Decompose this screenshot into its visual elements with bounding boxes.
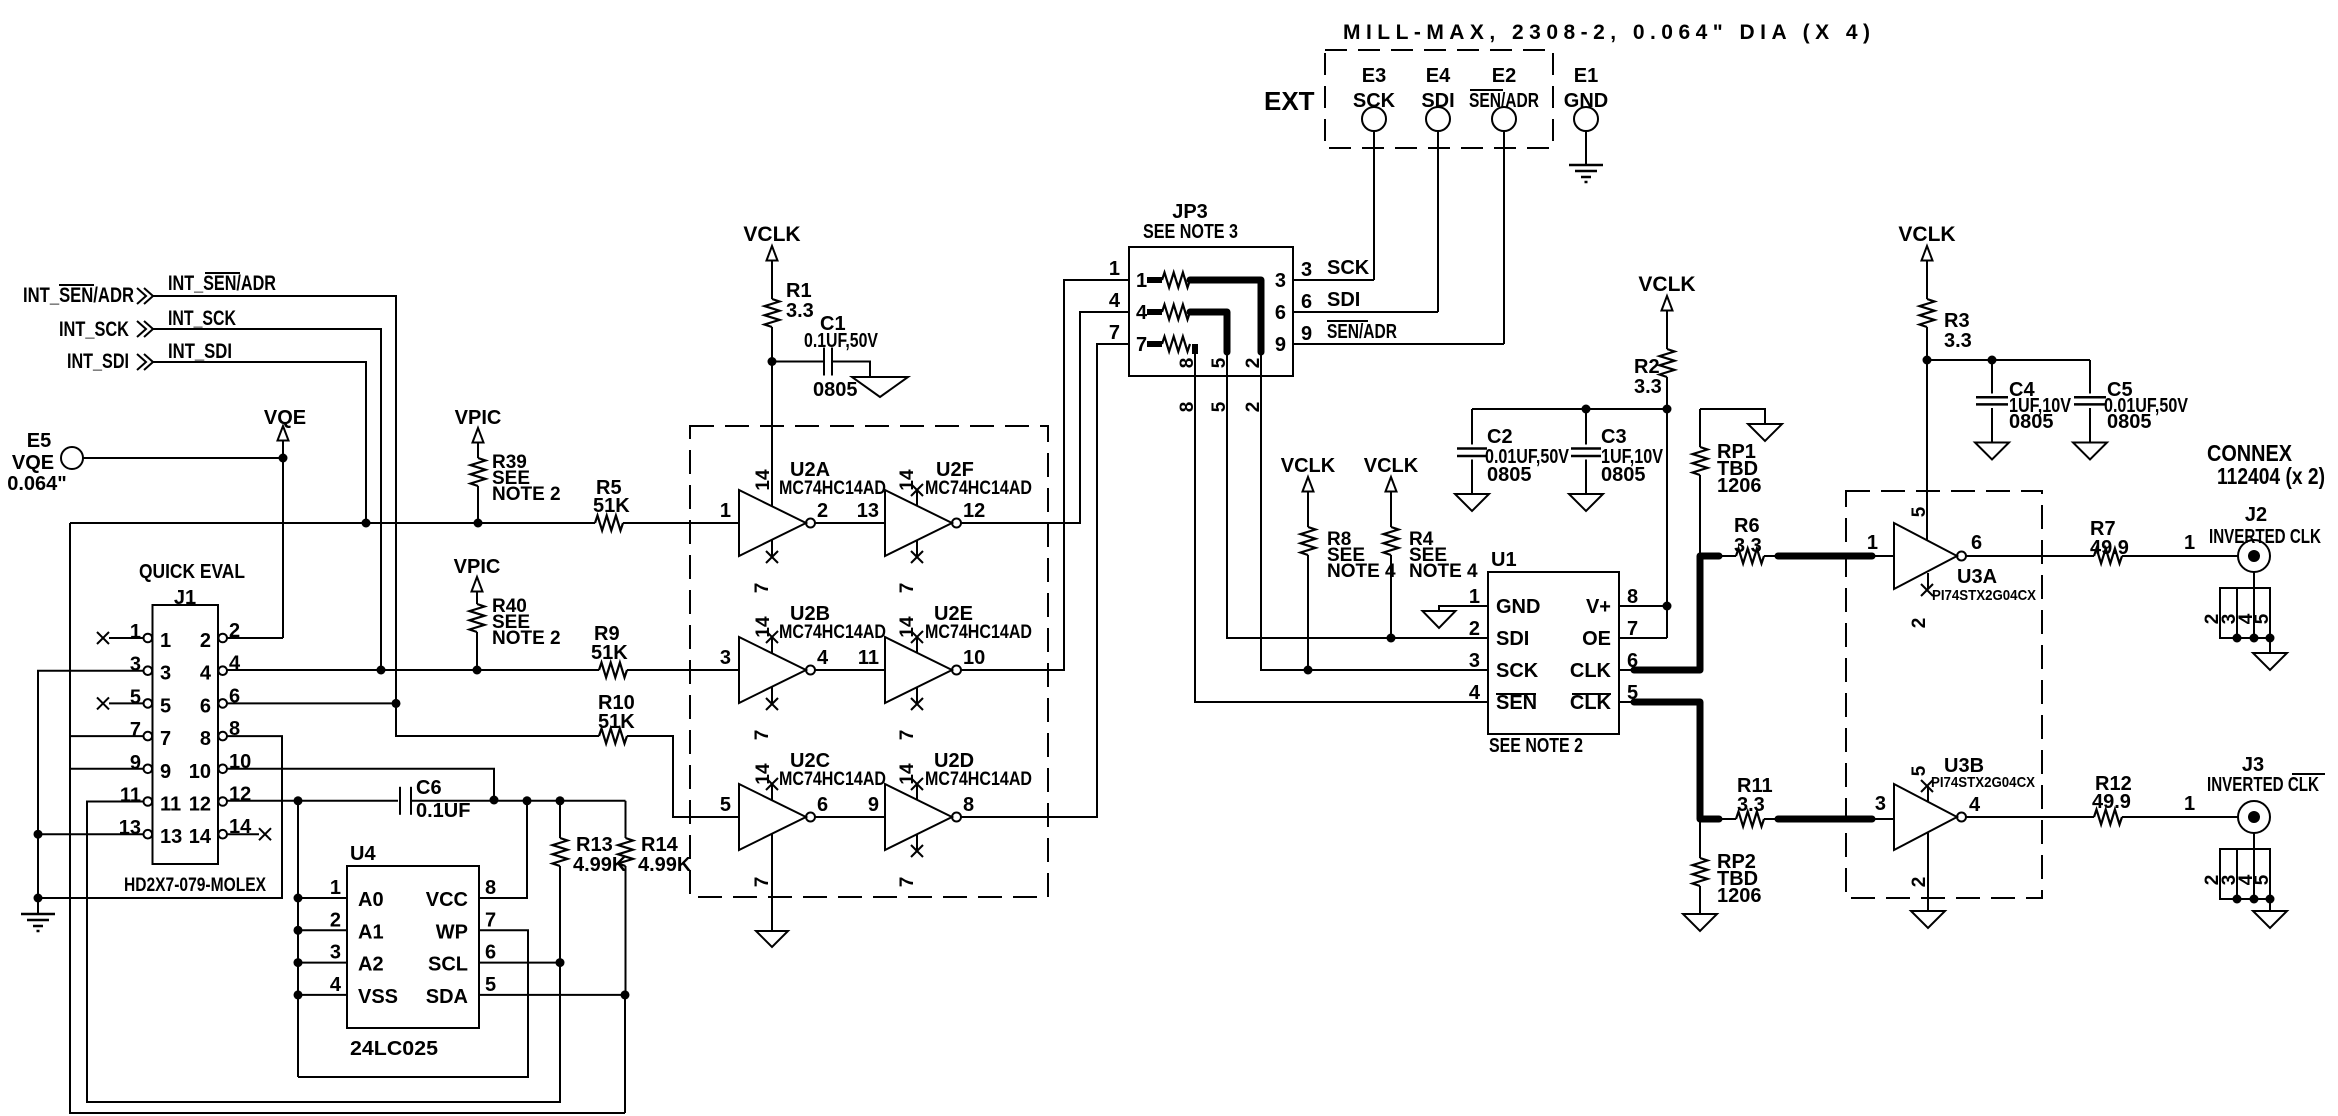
svg-text:1: 1 — [2184, 532, 2195, 554]
svg-text:0.064": 0.064" — [7, 473, 67, 495]
svg-text:OE: OE — [1582, 628, 1611, 650]
svg-text:E1: E1 — [1574, 65, 1598, 87]
svg-text:J3: J3 — [2242, 754, 2264, 776]
svg-text:2: 2 — [330, 909, 341, 931]
wire U4 SCL to R13 — [479, 958, 565, 967]
svg-text:14: 14 — [753, 616, 774, 638]
JP3 inside pin labels 8 5 2 — [1177, 357, 1264, 368]
svg-text:E5: E5 — [27, 430, 51, 452]
resistor R14 4.99K — [618, 834, 692, 1113]
power VCLK arrow (R4) — [1364, 455, 1419, 527]
svg-text:2: 2 — [1243, 358, 1264, 369]
svg-text:INT_SCK: INT_SCK — [59, 318, 129, 341]
svg-text:VCLK: VCLK — [1281, 455, 1336, 477]
svg-text:INT_SEN/ADR: INT_SEN/ADR — [168, 272, 276, 295]
svg-text:VQE: VQE — [12, 452, 54, 474]
wire U3B out to R12 — [1966, 816, 2094, 818]
svg-text:7: 7 — [752, 730, 773, 741]
ground arrow C1 — [852, 377, 908, 397]
inverter U2E MC74HC14AD — [885, 603, 1032, 740]
wire INT_SEN/ADR net label — [168, 272, 276, 295]
svg-text:1: 1 — [1469, 586, 1480, 608]
svg-text:51K: 51K — [593, 495, 630, 517]
wire INT_SEN/ADR to J1.6 and R10 — [153, 296, 599, 736]
inverter U2A MC74HC14AD — [720, 459, 886, 593]
wire R3 rail to C4 C5 — [1923, 356, 2091, 541]
svg-text:SDA: SDA — [426, 986, 468, 1008]
svg-text:VCLK: VCLK — [1364, 455, 1419, 477]
svg-text:14: 14 — [189, 826, 212, 848]
svg-text:VCLK: VCLK — [1898, 223, 1955, 246]
svg-text:V+: V+ — [1586, 596, 1611, 618]
svg-text:VCLK: VCLK — [743, 223, 800, 246]
svg-text:U3A: U3A — [1957, 566, 1997, 588]
svg-text:9: 9 — [868, 794, 879, 816]
wire J1 pin7/pin9 vertical (SDI/SDA net) — [70, 523, 625, 1113]
wire JP3 pin5 to U1 SDI — [1227, 376, 1488, 643]
capacitor C5 0.01UF,50V — [2074, 360, 2189, 443]
ground arrow J3 — [2253, 911, 2287, 928]
svg-text:1: 1 — [2184, 793, 2195, 815]
svg-text:3: 3 — [720, 647, 731, 669]
wire VCLK rail C2 C3 — [1472, 405, 1672, 639]
wire INT_SCK net label — [168, 307, 236, 330]
svg-text:3: 3 — [330, 942, 341, 964]
svg-text:10: 10 — [963, 647, 985, 669]
connector J2 INVERTED CLK — [2209, 504, 2321, 572]
svg-text:6: 6 — [1301, 291, 1312, 313]
dashed box U2 inverters — [690, 426, 1048, 897]
svg-text:7: 7 — [1136, 334, 1147, 356]
JP3 left pin numbers — [1109, 258, 1121, 344]
power VCLK arrow (R3) — [1898, 223, 1955, 299]
svg-text:2: 2 — [1469, 618, 1480, 640]
svg-text:INT_SCK: INT_SCK — [168, 307, 236, 330]
svg-text:6: 6 — [817, 794, 828, 816]
svg-text:4.99K: 4.99K — [638, 854, 692, 876]
svg-text:12: 12 — [963, 500, 985, 522]
svg-text:4: 4 — [330, 974, 342, 996]
svg-text:A1: A1 — [358, 921, 384, 943]
svg-text:7: 7 — [897, 877, 918, 888]
wire U2A out to U2F in — [815, 500, 885, 523]
svg-text:R6: R6 — [1734, 515, 1760, 537]
svg-text:14: 14 — [897, 469, 918, 491]
ground arrow U3B — [1911, 911, 1945, 928]
svg-text:SDI: SDI — [1327, 289, 1360, 311]
svg-text:13: 13 — [119, 817, 141, 839]
svg-text:INT_SEN/ADR: INT_SEN/ADR — [23, 284, 134, 307]
wire U4 WP loop — [298, 930, 528, 1077]
svg-text:5: 5 — [485, 974, 496, 996]
resistor RP2 TBD — [1693, 822, 1762, 914]
svg-text:9: 9 — [1275, 334, 1286, 356]
svg-text:R2: R2 — [1634, 356, 1660, 378]
wire J1 pin5 no-connect — [97, 697, 144, 709]
svg-text:5: 5 — [1909, 506, 1930, 517]
svg-text:SEN/ADR: SEN/ADR — [1327, 321, 1397, 343]
ground arrow RP2 — [1683, 914, 1717, 931]
svg-text:8: 8 — [963, 794, 974, 816]
svg-text:J1: J1 — [174, 587, 196, 609]
svg-text:INT_SDI: INT_SDI — [67, 350, 129, 373]
JP3 below pin labels 8 5 2 — [1177, 401, 1264, 412]
power VPIC arrow (R40) — [454, 556, 501, 604]
svg-text:3.3: 3.3 — [1737, 794, 1765, 816]
svg-text:CLK: CLK — [1570, 660, 1612, 682]
svg-text:GND: GND — [1564, 90, 1608, 112]
svg-text:4: 4 — [1969, 794, 1981, 816]
wire J3 shield pins — [2202, 833, 2275, 911]
svg-text:SCK: SCK — [1327, 257, 1370, 279]
svg-text:PI74STX2G04CX: PI74STX2G04CX — [1931, 774, 2035, 791]
svg-text:4: 4 — [229, 653, 241, 675]
svg-text:1206: 1206 — [1717, 885, 1762, 907]
chip U1 clock driver — [1469, 549, 1638, 757]
svg-text:JP3: JP3 — [1172, 201, 1208, 223]
ground arrow C3 — [1569, 494, 1603, 511]
svg-text:5: 5 — [130, 686, 141, 708]
svg-text:SCK: SCK — [1353, 90, 1396, 112]
svg-text:SEE NOTE 2: SEE NOTE 2 — [1489, 735, 1583, 757]
node E4 SDI pad — [1421, 65, 1454, 312]
svg-text:C2: C2 — [1487, 426, 1513, 448]
wire U4 VCC up — [479, 801, 527, 898]
capacitor C1 0.1UF,50V — [772, 313, 879, 401]
svg-text:12: 12 — [189, 794, 211, 816]
wire J1 pin11 to SCL loop — [87, 802, 560, 1103]
wire JP3 pin2 to U1 SCK — [1261, 376, 1488, 675]
svg-text:C3: C3 — [1601, 426, 1627, 448]
svg-text:SDI: SDI — [1496, 628, 1529, 650]
inverter U2F MC74HC14AD — [885, 459, 1032, 593]
wire R1 to U2A pin14 — [768, 327, 777, 506]
inverter U2B MC74HC14AD — [720, 603, 886, 740]
resistor R9 51K — [591, 623, 739, 678]
svg-text:3: 3 — [1275, 270, 1286, 292]
svg-text:INT_SDI: INT_SDI — [168, 340, 232, 363]
svg-text:11: 11 — [120, 785, 141, 807]
svg-text:10: 10 — [189, 761, 211, 783]
node INT_SDI input port — [67, 350, 153, 373]
JP3 row1 jumper resistor — [1136, 270, 1261, 376]
svg-text:MC74HC14AD: MC74HC14AD — [779, 622, 886, 643]
wire U3A out to R7 — [1966, 555, 2094, 557]
svg-text:13: 13 — [857, 500, 879, 522]
svg-text:4: 4 — [817, 647, 829, 669]
svg-text:A0: A0 — [358, 889, 384, 911]
wire SCK label — [1327, 257, 1370, 279]
svg-text:3: 3 — [160, 663, 171, 685]
resistor R1 3.3 — [765, 280, 814, 327]
wire R12 to J3 — [2122, 793, 2238, 817]
ground symbol below J1 — [21, 898, 55, 931]
ground arrow RP1 — [1748, 424, 1782, 441]
wire J2 shield pins — [2202, 572, 2275, 653]
svg-text:6: 6 — [485, 942, 496, 964]
wire J1 pin12 to C6 — [227, 796, 398, 805]
svg-text:14: 14 — [753, 763, 774, 785]
resistor R3 3.3 — [1920, 299, 1972, 360]
svg-text:7: 7 — [1627, 618, 1638, 640]
svg-text:7: 7 — [1109, 322, 1120, 344]
svg-text:VCLK: VCLK — [1638, 273, 1695, 296]
chip U4 24LC025 — [330, 843, 496, 1060]
JP3 row4 jumper resistor — [1136, 302, 1227, 376]
wire R7 to J2 — [2122, 532, 2238, 556]
svg-text:5: 5 — [1209, 357, 1230, 368]
svg-text:1: 1 — [1109, 258, 1120, 280]
svg-text:1206: 1206 — [1717, 475, 1762, 497]
wire R5 input row — [70, 519, 595, 528]
svg-text:51K: 51K — [591, 642, 628, 664]
svg-text:9: 9 — [160, 761, 171, 783]
capacitor C2 0.01UF,50V — [1457, 409, 1570, 494]
svg-text:3.3: 3.3 — [786, 300, 814, 322]
wire U1 CLKbar thick to R11 — [1619, 702, 1722, 819]
wire SDI label — [1327, 289, 1360, 311]
inverter U2C MC74HC14AD — [720, 750, 886, 887]
connector J1 QUICK EVAL header — [119, 561, 252, 864]
power VQE arrow — [264, 407, 306, 458]
resistor R11 3.3 — [1722, 775, 1773, 827]
resistor R10 51K — [598, 692, 739, 817]
node INT_SEN/ADR input port — [23, 284, 153, 307]
connector J3 INVERTED CLKbar — [2207, 754, 2325, 833]
svg-text:5: 5 — [1909, 765, 1930, 776]
node E3 SCK pad — [1353, 65, 1396, 280]
resistor R4 — [1384, 527, 1479, 638]
wire E5 to VQE junction and J1 pin2 — [83, 454, 288, 639]
resistor R6 3.3 — [1722, 515, 1764, 564]
svg-text:VSS: VSS — [358, 986, 398, 1008]
svg-text:7: 7 — [752, 583, 773, 594]
svg-text:MC74HC14AD: MC74HC14AD — [779, 478, 886, 499]
svg-text:0805: 0805 — [813, 379, 858, 401]
wire INT_SCK to J1.4 row — [153, 329, 386, 675]
svg-text:12: 12 — [229, 784, 251, 806]
wire J1 pin14 no-connect — [227, 828, 271, 840]
ground arrow U2C — [756, 931, 788, 947]
inverter U2D MC74HC14AD — [885, 750, 1032, 887]
wire SEN/ADR label — [1327, 321, 1397, 343]
svg-text:7: 7 — [897, 583, 918, 594]
svg-text:A2: A2 — [358, 954, 384, 976]
wire U2B out to U2E in — [815, 647, 885, 670]
svg-text:6: 6 — [1971, 532, 1982, 554]
svg-text:R13: R13 — [576, 834, 613, 856]
svg-text:112404 (x 2): 112404 (x 2) — [2217, 463, 2325, 489]
resistor R12 49.9 — [2092, 773, 2132, 825]
svg-text:3.3: 3.3 — [1734, 535, 1762, 557]
wire U2D out to JP3 pin7 — [961, 344, 1129, 817]
svg-text:7: 7 — [752, 877, 773, 888]
ground arrow J2 — [2253, 653, 2287, 670]
svg-text:1: 1 — [130, 621, 141, 643]
resistor R7 49.9 — [2090, 518, 2129, 564]
wire U2C out to U2D in — [815, 794, 885, 817]
ground arrow C5 — [2073, 443, 2107, 460]
svg-text:0805: 0805 — [1601, 464, 1646, 486]
node INT_SCK input port — [59, 318, 153, 341]
svg-text:14: 14 — [753, 469, 774, 491]
svg-text:8: 8 — [200, 728, 211, 750]
svg-text:SCK: SCK — [1496, 660, 1539, 682]
svg-text:49.9: 49.9 — [2092, 791, 2131, 813]
svg-text:9: 9 — [1301, 323, 1312, 345]
inverter U3B PI74STX2G04CX — [1875, 755, 2035, 887]
wire U4 left pins common — [294, 801, 348, 1077]
svg-text:U4: U4 — [350, 843, 376, 865]
wire R11 thick to U3B — [1764, 816, 1894, 823]
resistor R13 4.99K — [553, 801, 627, 963]
power VCLK arrow (R2) — [1638, 273, 1695, 349]
svg-text:4: 4 — [1136, 302, 1148, 324]
svg-text:1: 1 — [160, 630, 171, 652]
svg-text:8: 8 — [1627, 586, 1638, 608]
node E1 GND pad — [1564, 65, 1608, 131]
svg-text:WP: WP — [436, 921, 468, 943]
JP3 right pin wires — [1275, 259, 1504, 356]
svg-text:NOTE 4: NOTE 4 — [1327, 561, 1396, 582]
svg-text:3: 3 — [130, 654, 141, 676]
ground arrow U1 GND pin — [1423, 606, 1489, 628]
svg-text:SEN: SEN — [1496, 692, 1537, 714]
svg-text:8: 8 — [1177, 358, 1198, 369]
svg-text:11: 11 — [160, 794, 181, 816]
svg-text:7: 7 — [160, 728, 171, 750]
svg-text:MC74HC14AD: MC74HC14AD — [925, 622, 1032, 643]
svg-text:1: 1 — [1867, 532, 1878, 554]
svg-text:SCL: SCL — [428, 954, 468, 976]
wire U3A pin5 to R3 rail — [0, 0, 1, 1]
capacitor C6 0.1UF — [400, 777, 626, 838]
svg-text:E4: E4 — [1426, 65, 1451, 87]
label EXT — [1264, 86, 1315, 116]
wire INT_SDI net label — [168, 340, 232, 363]
resistor R5 51K — [593, 477, 739, 531]
svg-text:2: 2 — [1909, 618, 1930, 629]
wire U2E out to JP3 pin1 — [961, 280, 1129, 670]
svg-text:6: 6 — [200, 695, 211, 717]
svg-text:HD2X7-079-MOLEX: HD2X7-079-MOLEX — [124, 875, 266, 896]
dashed box EXT pins — [1325, 50, 1553, 148]
svg-text:J2: J2 — [2245, 504, 2267, 526]
label CONNEX 112404 — [2207, 440, 2325, 489]
svg-text:4: 4 — [1469, 682, 1481, 704]
svg-text:0805: 0805 — [2107, 411, 2152, 433]
svg-text:14: 14 — [897, 616, 918, 638]
svg-text:24LC025: 24LC025 — [350, 1038, 438, 1060]
wire J1 pin4 row — [227, 666, 599, 675]
wire U1 CLK thick to R6 — [1619, 556, 1722, 670]
wire U4 SDA to R14 — [479, 990, 630, 999]
svg-text:0.1UF: 0.1UF — [416, 800, 470, 822]
wire JP3 pin8 to U1 SEN — [1195, 376, 1488, 702]
node E2 SEN/ADR pad — [1469, 65, 1539, 344]
svg-text:VCC: VCC — [426, 889, 468, 911]
svg-text:SEN/ADR: SEN/ADR — [1469, 90, 1539, 112]
svg-text:SEE NOTE 3: SEE NOTE 3 — [1143, 221, 1238, 243]
svg-text:4: 4 — [1109, 290, 1121, 312]
svg-text:0805: 0805 — [2009, 411, 2054, 433]
svg-text:C6: C6 — [416, 777, 442, 799]
svg-text:3: 3 — [1301, 259, 1312, 281]
svg-text:INVERTED CLK: INVERTED CLK — [2207, 774, 2319, 796]
svg-text:EXT: EXT — [1264, 86, 1315, 116]
svg-text:3.3: 3.3 — [1634, 376, 1662, 398]
wire U2F out to JP3 pin4 — [961, 312, 1129, 523]
svg-text:9: 9 — [130, 752, 141, 774]
wire R6 thick to U3A — [1764, 555, 1894, 557]
svg-text:5: 5 — [160, 695, 171, 717]
wire U3B pin2 to ground — [1927, 833, 1929, 911]
svg-text:E2: E2 — [1492, 65, 1516, 87]
dashed box U3 inverters — [1846, 491, 2042, 898]
svg-text:CLK: CLK — [1570, 692, 1612, 714]
power VPIC arrow (R39) — [455, 407, 502, 458]
svg-text:7: 7 — [130, 719, 141, 741]
JP3 row7 jumper resistor — [1136, 334, 1195, 376]
node E5 VQE test point — [7, 430, 83, 495]
wire INT_SDI to R5 row — [153, 362, 371, 528]
ground arrow C2 — [1455, 494, 1489, 511]
svg-text:4: 4 — [200, 663, 212, 685]
svg-text:3: 3 — [1875, 793, 1886, 815]
svg-text:2: 2 — [200, 630, 211, 652]
svg-text:5: 5 — [2252, 874, 2273, 885]
svg-text:8: 8 — [485, 877, 496, 899]
resistor R39 pullup — [471, 452, 561, 523]
svg-text:R14: R14 — [641, 834, 679, 856]
svg-text:6: 6 — [1275, 302, 1286, 324]
svg-text:5: 5 — [720, 794, 731, 816]
inverter U3A PI74STX2G04CX — [1867, 506, 2036, 628]
svg-text:51K: 51K — [598, 711, 635, 733]
svg-text:NOTE 2: NOTE 2 — [492, 628, 561, 649]
svg-text:SDI: SDI — [1421, 90, 1454, 112]
svg-text:R1: R1 — [786, 280, 812, 302]
power VCLK arrow (R8) — [1281, 455, 1336, 527]
svg-text:MC74HC14AD: MC74HC14AD — [925, 769, 1032, 790]
svg-text:PI74STX2G04CX: PI74STX2G04CX — [1932, 587, 2036, 604]
wire J1 pin1 no-connect — [97, 632, 144, 644]
svg-text:0.1UF,50V: 0.1UF,50V — [804, 330, 879, 352]
resistor R8 — [1301, 527, 1397, 670]
svg-text:4.99K: 4.99K — [573, 854, 627, 876]
wire J1 pin3/pin13 ground net — [34, 671, 283, 903]
svg-text:6: 6 — [229, 685, 240, 707]
svg-text:R3: R3 — [1944, 310, 1970, 332]
wire U2C pin7 to ground — [771, 834, 773, 931]
svg-text:VQE: VQE — [264, 407, 306, 429]
svg-text:U1: U1 — [1491, 549, 1517, 571]
svg-text:5: 5 — [2252, 613, 2273, 624]
label MILL-MAX header — [1343, 21, 1870, 44]
svg-text:1: 1 — [1136, 270, 1147, 292]
jumper block JP3 — [1129, 201, 1293, 376]
svg-text:0805: 0805 — [1487, 464, 1532, 486]
wire U1 V+ OE stubs — [1619, 602, 1672, 639]
svg-text:QUICK EVAL: QUICK EVAL — [139, 561, 245, 583]
svg-text:11: 11 — [858, 647, 879, 669]
svg-text:1: 1 — [720, 500, 731, 522]
resistor R40 pullup — [470, 596, 561, 670]
svg-text:E3: E3 — [1362, 65, 1386, 87]
svg-text:3.3: 3.3 — [1944, 330, 1972, 352]
svg-text:2: 2 — [817, 500, 828, 522]
svg-text:MC74HC14AD: MC74HC14AD — [779, 769, 886, 790]
